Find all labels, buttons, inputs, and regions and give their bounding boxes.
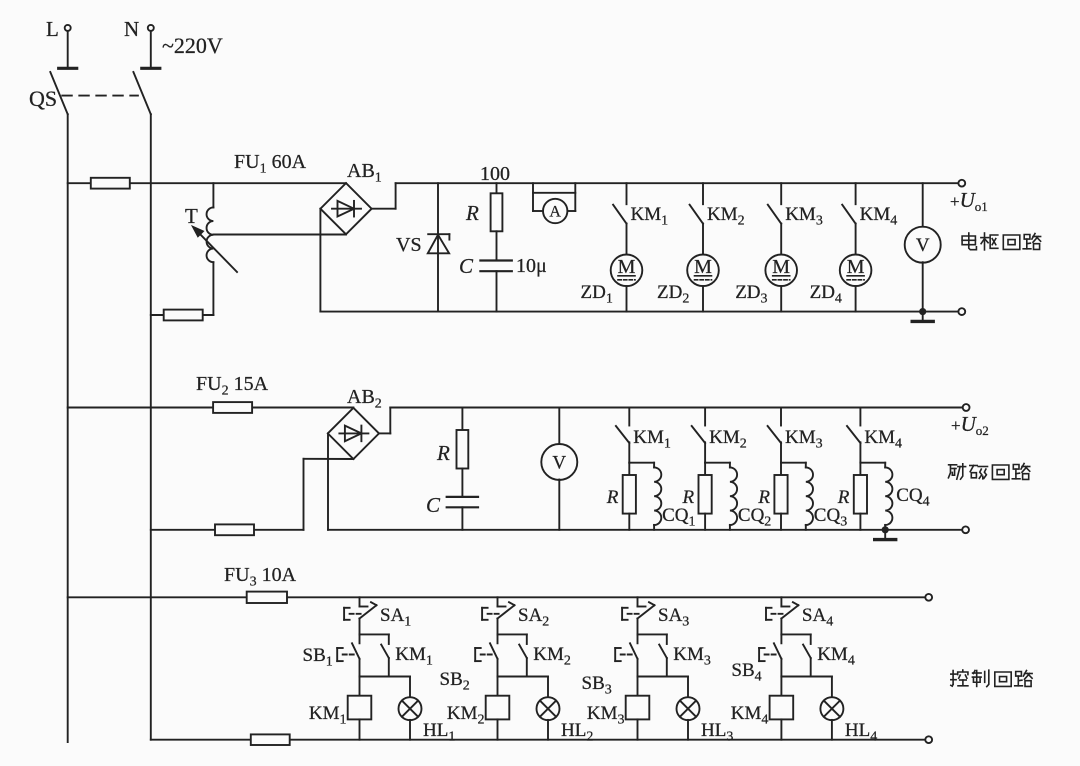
svg-text:A: A [549, 203, 561, 220]
svg-text:10μ: 10μ [516, 255, 547, 277]
svg-text:C: C [426, 493, 441, 517]
svg-text:FU3 10A: FU3 10A [224, 564, 297, 590]
svg-text:M: M [694, 256, 712, 278]
svg-text:~220V: ~220V [162, 33, 223, 58]
svg-text:N: N [124, 17, 139, 41]
svg-text:FU1 60A: FU1 60A [234, 151, 307, 177]
svg-text:100: 100 [480, 163, 510, 185]
svg-text:VS: VS [396, 234, 422, 256]
svg-text:M: M [618, 256, 636, 278]
svg-text:R: R [681, 487, 694, 508]
svg-text:QS: QS [29, 86, 57, 111]
svg-text:R: R [436, 441, 450, 465]
svg-text:R: R [837, 487, 850, 508]
svg-text:R: R [465, 201, 479, 225]
svg-text:V: V [552, 453, 566, 474]
svg-text:M: M [772, 256, 790, 278]
svg-text:L: L [46, 17, 59, 41]
svg-text:T: T [185, 204, 198, 228]
svg-text:C: C [459, 254, 474, 278]
svg-text:R: R [757, 487, 770, 508]
svg-text:V: V [916, 235, 930, 256]
svg-text:FU2 15A: FU2 15A [196, 373, 269, 399]
svg-text:M: M [847, 256, 865, 278]
svg-text:R: R [606, 487, 619, 508]
